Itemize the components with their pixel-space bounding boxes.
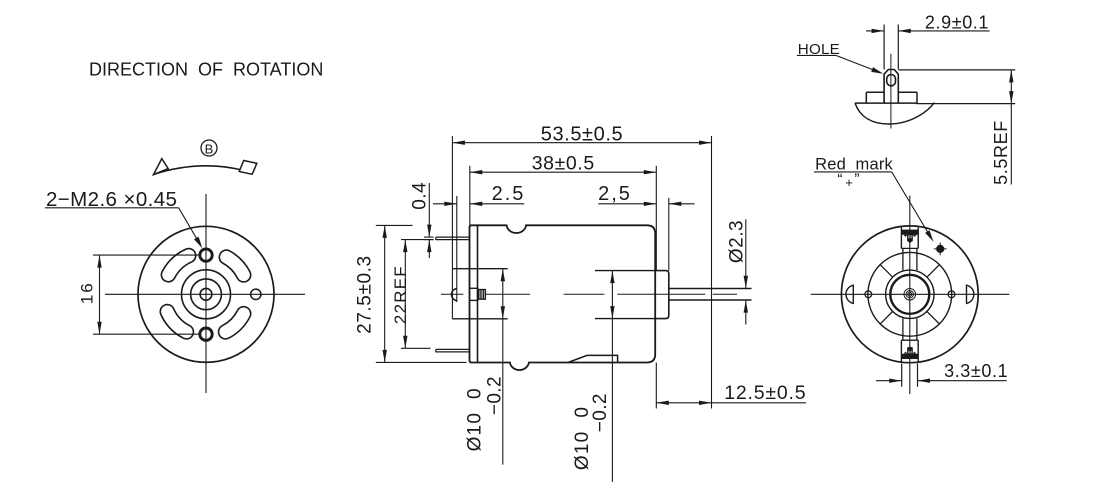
rear view: hub outer circle [886, 270, 934, 318]
dimension 53.5: right extension line (shared with 12.5) [711, 136, 713, 409]
rear view: spoke 135 deg [880, 265, 893, 278]
dimension 2.9: dimension line right + arrow [898, 30, 989, 32]
dimension 3.3: left extension [901, 364, 903, 387]
dimension 16: extension line top [93, 254, 201, 256]
rear view: endbell ring circle [868, 252, 952, 336]
label HOLE: underline [797, 54, 836, 56]
svg-text:−0.2: −0.2 [485, 376, 506, 415]
dimension 12.5: dimension line [656, 402, 806, 404]
rear view: right ear notch [967, 285, 974, 303]
dimension 3.3: right extension [917, 364, 919, 387]
dimension 3.3: dimension line right + arrow [918, 380, 1007, 382]
detail: flange right block [898, 91, 917, 93]
rear view: horizontal centerline [811, 293, 1010, 295]
dimension 53.5: left extension line [451, 136, 453, 319]
detail: flange bottom edge [855, 102, 917, 104]
svg-text:DIRECTION OF ROTATION: DIRECTION OF ROTATION [89, 60, 323, 80]
front view: motor outer circle [138, 226, 274, 362]
svg-text:12.5±0.5: 12.5±0.5 [724, 382, 806, 404]
rear view: vertical centerline [909, 196, 911, 394]
dimension 0.4: dimension line below [428, 240, 430, 258]
front view: vent slot top-left [161, 249, 195, 282]
dimension 2,5 right: dimension line + outside arrows [598, 203, 656, 205]
front view: vent slot top-right [219, 250, 250, 282]
rear view: top terminal crimp bar (black) [902, 230, 918, 235]
rear view: left pilot hole [865, 291, 872, 298]
rear view: bottom brush channel [902, 318, 904, 340]
front view: small pilot hole right [251, 289, 261, 299]
rear view: spoke 315 deg [927, 311, 940, 324]
svg-text:22REF: 22REF [391, 265, 410, 324]
dimension 2.5 left: dimension line + outside arrows [433, 203, 457, 205]
dimension 3.3: dimension line left + arrow [876, 380, 902, 382]
rear view: hub bold ring [890, 275, 929, 314]
dimension 27.5: bottom extension [376, 361, 467, 363]
side view: top terminal tab [436, 237, 470, 240]
dimension 27.5: dimension line [384, 225, 386, 362]
rear view: bottom terminal crimp bar (black) [902, 354, 918, 359]
dimension 0.4: extension ticks [424, 236, 434, 238]
dimension 22REF: bottom extension [401, 347, 431, 349]
dimension 16: dimension line with arrows [99, 255, 101, 334]
dimension 12.5: left extension [655, 363, 657, 409]
rear view: spoke 45 deg [927, 265, 940, 278]
label HOLE: leader line [836, 55, 880, 72]
svg-text:+: + [845, 175, 853, 190]
side view: shaft rear end block [470, 287, 479, 289]
svg-text:0.4: 0.4 [410, 182, 431, 210]
label 2-M2.6x0.45: underline [45, 207, 179, 209]
dimension 2.9: dimension line left + arrow [866, 30, 884, 32]
front view: vertical centerline [205, 194, 207, 393]
rear view: top terminal box [900, 227, 902, 248]
svg-text:B: B [205, 142, 214, 157]
rear view: bottom terminal pin [908, 348, 913, 354]
circled B symbol [201, 140, 217, 156]
label Red mark: leader line [892, 172, 932, 238]
front view: shaft circle [200, 288, 212, 300]
detail: endbell dome arc [855, 103, 934, 125]
dimension 27.5: top extension [376, 224, 413, 226]
dimension phi10 right: dimension line with arrows [611, 271, 613, 482]
rotation arc left arrowhead (open) [154, 159, 169, 175]
side view: rear bearing bump [451, 289, 456, 301]
svg-text:2,5: 2,5 [598, 183, 632, 205]
svg-text:”: ” [854, 172, 859, 189]
svg-text:53.5±0.5: 53.5±0.5 [541, 123, 624, 145]
side view: front bearing boss (right hub) [655, 271, 669, 319]
rear view: left ear notch [846, 285, 853, 303]
svg-text:16: 16 [78, 281, 97, 304]
svg-text:2.9±0.1: 2.9±0.1 [925, 13, 989, 33]
dimension 38: dimension line [470, 171, 657, 173]
label Red mark: underline [814, 171, 892, 173]
rear view: top brush channel [902, 248, 904, 270]
front view: vent slot bottom-right [219, 307, 251, 339]
dimension phi2.3: lower dimension line [745, 300, 747, 324]
dimension 16: extension line bottom [93, 333, 201, 335]
dimension phi10 left: dimension line with arrows [502, 269, 504, 465]
rear view: center shaft circles [904, 289, 916, 301]
dimension 2,5 right: extension line [668, 198, 670, 271]
front view: vent slot bottom-left [160, 305, 193, 339]
svg-text:2.5: 2.5 [492, 183, 526, 205]
side view: front bearing cylinder lines (phi10 left) [452, 268, 507, 270]
side view: bottom terminal tab [436, 349, 470, 352]
dimension 38: right extension [655, 166, 657, 271]
dimension 22REF: top extension [401, 239, 434, 241]
side view: motor can outline [470, 225, 656, 370]
rear view: right pilot hole [948, 291, 955, 298]
side view: can crimp line [477, 225, 479, 362]
label 2-M2.6x0.45: leader line [179, 208, 200, 244]
svg-text:Ø2.3: Ø2.3 [727, 220, 748, 263]
side view: center axis line [441, 293, 463, 295]
front view: bottom screw hole M2.6 [200, 328, 212, 340]
front view: bearing boss inner circle [191, 279, 222, 310]
front view: bearing boss outer circle [182, 270, 231, 319]
rear view: outer circle [841, 226, 978, 363]
detail: flange left block [866, 91, 884, 93]
dimension 5.5REF: bottom extension [916, 103, 1015, 105]
rotation arc right brush mark (tilted square) [239, 161, 257, 175]
svg-text:−0.2: −0.2 [590, 393, 611, 432]
svg-text:27.5±0.3: 27.5±0.3 [354, 255, 375, 334]
dimension 22REF: dimension line [404, 240, 406, 349]
detail: terminal hole (obround) [887, 75, 896, 86]
detail: terminal tab outline [884, 70, 898, 104]
dimension 2.5 left: extension line [456, 196, 458, 302]
dimension 5.5REF: top extension [899, 69, 1016, 71]
dimension 2.9: left extension [883, 25, 885, 70]
side view: bottom punched tab [568, 355, 618, 362]
dimension phi2.3: upper dimension line [745, 219, 747, 288]
svg-text:“: “ [837, 172, 842, 189]
side view: shaft rear threaded tip [479, 290, 486, 300]
rear view: top terminal pin [908, 235, 913, 241]
direction of rotation arc [154, 166, 244, 174]
dimension 53.5: dimension line [452, 142, 711, 144]
rear view: spoke 225 deg [880, 311, 893, 324]
dimension 38: left extension (can edge up) [469, 166, 471, 226]
side view: shaft [669, 288, 752, 290]
side view: rear phi10 cylinder lines (right) [595, 270, 655, 272]
dimension 0.4: dimension line above [428, 183, 430, 237]
detail: tab centerline [890, 54, 892, 129]
front view: top screw hole M2.6 [200, 249, 212, 261]
dimension 2.9: right extension [897, 25, 899, 70]
svg-text:Ø10 0: Ø10 0 [464, 387, 485, 451]
svg-text:38±0.5: 38±0.5 [532, 152, 595, 174]
front view: horizontal centerline [105, 293, 305, 295]
rear view: bottom terminal box [900, 340, 902, 363]
dimension 5.5REF: dimension line [1010, 70, 1012, 185]
svg-text:3.3±0.1: 3.3±0.1 [944, 361, 1008, 381]
rear view: red mark dot [934, 248, 947, 250]
svg-text:5.5REF: 5.5REF [991, 120, 1011, 185]
